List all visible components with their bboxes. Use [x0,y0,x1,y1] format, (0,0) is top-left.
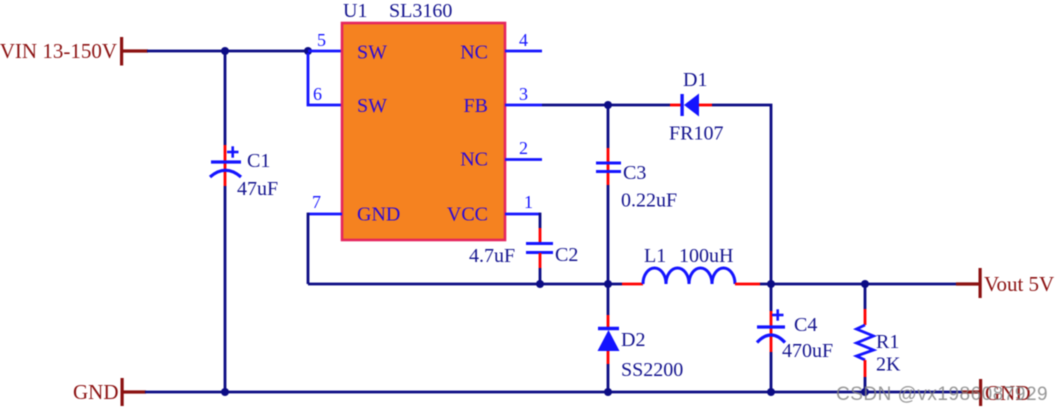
diode D2 [598,329,684,382]
svg-text:C4: C4 [794,314,817,336]
wire R1 vertical top [864,284,867,309]
svg-text:C1: C1 [247,150,270,172]
wire FB to node [542,104,670,107]
svg-text:R1: R1 [876,331,899,353]
port GND right [962,379,1031,406]
capacitor C4 [757,309,833,362]
svg-text:CSDN @vx1986087929: CSDN @vx1986087929 [836,384,1048,405]
wire L1 left red stub [622,283,643,286]
svg-text:GND: GND [357,204,400,226]
svg-text:6: 6 [313,84,322,104]
node FB junction [604,101,612,109]
svg-text:470uF: 470uF [782,340,833,362]
wire C2 red stub top [539,228,542,243]
svg-text:SW: SW [357,42,387,64]
wire R1 red stub bottom [864,360,867,377]
wire pin6 branch [308,53,342,105]
svg-text:VCC: VCC [447,204,488,226]
node R1 bottom junction [861,388,869,396]
wire pin1 stub [505,213,540,216]
wire C1 vertical top [224,51,227,145]
svg-text:5: 5 [317,30,326,50]
svg-text:GND: GND [73,380,119,404]
node C2 junction [536,280,544,288]
svg-text:Vout 5V: Vout 5V [984,272,1054,296]
wire mid rail left [308,283,622,286]
wire C1 vertical bottom [224,186,227,392]
svg-text:NC: NC [460,42,488,64]
svg-text:7: 7 [312,192,321,212]
svg-text:100uH: 100uH [679,245,733,267]
wire pin7 vertical [307,213,310,284]
svg-text:4.7uF: 4.7uF [469,245,515,267]
svg-text:47uF: 47uF [237,178,278,200]
wire pin7 stub [308,213,342,216]
wire D1 left red stub [670,104,682,107]
wire D2 red stub top [607,315,610,329]
svg-text:4: 4 [519,30,528,50]
svg-text:D2: D2 [621,329,645,351]
svg-text:L1: L1 [644,245,666,267]
wire D2 to bottom rail [607,364,610,392]
node junction pin5/pin6 [304,47,312,55]
port Vout [956,268,1054,298]
wire R1 to bottom rail [864,377,867,392]
node D2/L1 junction [604,280,612,288]
node D2 bottom junction [604,388,612,396]
wire D2 vertical top [607,284,610,315]
wire L1 right red stub [735,283,760,286]
wire C3 vertical bottom [607,185,610,284]
port VIN [0,37,148,66]
svg-text:SS2200: SS2200 [621,359,683,381]
wire bottom rail [145,391,962,394]
svg-text:FR107: FR107 [669,123,723,145]
svg-text:SL3160: SL3160 [389,0,452,22]
wire C3 vertical top [607,105,610,148]
wire pin1 corner down [539,213,542,228]
node C1 bottom junction [221,388,229,396]
wire R1 red stub top [864,309,867,325]
svg-text:3: 3 [519,84,528,104]
wire pin5 stub [308,50,342,53]
wire top rail [147,50,308,53]
svg-text:D1: D1 [683,69,707,91]
node R1 top junction [861,280,869,288]
wire C2 red stub bottom [539,253,542,268]
svg-text:2: 2 [519,138,528,158]
svg-text:SW: SW [357,95,387,117]
port GND left [73,378,146,406]
capacitor C3 [596,162,677,212]
node D1/C4 junction [767,280,775,288]
wire C4 red stub [770,311,773,352]
svg-text:0.22uF: 0.22uF [621,190,677,212]
wire C1 red stub [224,145,227,186]
wire pin4 stub [505,50,542,53]
svg-text:C3: C3 [623,162,646,184]
wire D1 right red stub [699,104,712,107]
wire D2 red stub bottom [607,351,610,364]
resistor R1 [857,325,902,376]
wire D1 to corner [712,105,771,284]
op-amp U1 IC body SL3160 [342,0,505,240]
svg-text:FB: FB [464,95,488,117]
wire C4 vertical top [770,284,773,311]
svg-text:2K: 2K [876,354,901,376]
svg-text:U1: U1 [343,0,367,22]
capacitor C1 [210,146,278,200]
wire C2 to rail [539,268,542,284]
svg-text:NC: NC [460,149,488,171]
inductor L1 [643,245,735,284]
svg-text:1: 1 [524,192,533,212]
svg-text:VIN 13-150V: VIN 13-150V [0,39,117,63]
wire pin2 stub [505,158,542,161]
node junction C1/top [221,47,229,55]
wire C4 vertical bottom [770,352,773,392]
svg-text:C2: C2 [555,244,578,266]
wire Vout rail [760,283,956,286]
diode D1 [669,69,723,145]
wire pin3 stub [505,104,542,107]
node C4 bottom junction [767,388,775,396]
capacitor C2 [469,244,578,268]
wire C3 red stub [607,148,610,185]
